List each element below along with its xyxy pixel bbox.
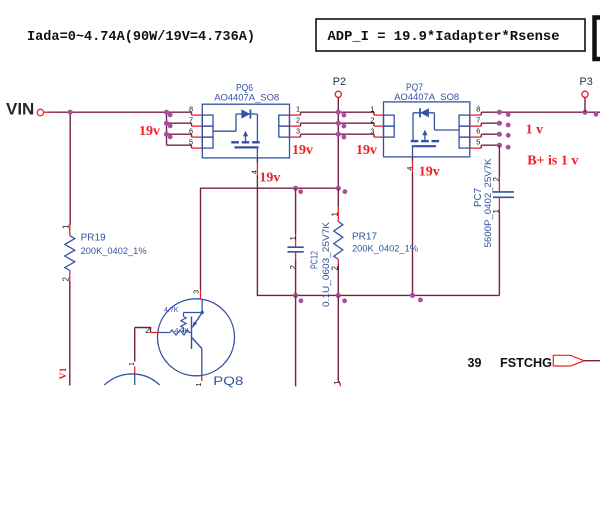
label 39 FSTCHG xyxy=(468,355,553,370)
svg-text:0.1U_0603_25V7K: 0.1U_0603_25V7K xyxy=(321,221,332,307)
svg-text:200K_0402_1%: 200K_0402_1% xyxy=(81,246,148,257)
svg-text:8: 8 xyxy=(476,104,480,113)
wires PQ7 pins 7 6 5 to vertical xyxy=(481,123,499,145)
svg-text:3: 3 xyxy=(296,127,300,136)
label net V1 xyxy=(59,367,69,379)
svg-text:19v: 19v xyxy=(292,143,313,158)
transistor PQ6 AO4407A_SO8 P-MOSFET xyxy=(202,104,289,158)
transistor PQ8 digital NPN xyxy=(151,299,235,387)
svg-text:PC12: PC12 xyxy=(310,251,321,269)
svg-text:1 v: 1 v xyxy=(526,123,544,138)
connector FSTCHG off-page pointer xyxy=(553,355,600,366)
label PQ7 refdes and value xyxy=(394,83,459,104)
wire 19v node horizontal xyxy=(200,187,338,189)
svg-text:2: 2 xyxy=(289,265,298,270)
svg-text:6: 6 xyxy=(189,126,193,135)
testpoint P2 with wire down xyxy=(333,76,346,188)
wire PQ8 collector from 19v node xyxy=(193,188,200,299)
label 19v PQ7 pin4 xyxy=(419,165,440,180)
node dots right vertical xyxy=(497,110,511,150)
label PC7 value rotated xyxy=(473,158,494,248)
svg-text:7: 7 xyxy=(476,115,480,124)
svg-text:5: 5 xyxy=(476,137,480,146)
capacitor PC12 0.1U xyxy=(288,188,304,295)
transistor PQ7 AO4407A_SO8 P-MOSFET mirrored xyxy=(384,102,470,157)
node dots bottom bus xyxy=(293,293,423,303)
svg-text:200K_0402_1%: 200K_0402_1% xyxy=(352,244,419,255)
svg-text:19v: 19v xyxy=(139,124,160,139)
capacitor PC7 5600P xyxy=(492,145,514,295)
annotation box ADP_I formula xyxy=(316,19,585,51)
node dots PQ6 left tap xyxy=(164,110,173,140)
svg-text:4.7K: 4.7K xyxy=(175,328,190,335)
resistor PR17 200K xyxy=(330,188,343,295)
label 19v PQ6 output xyxy=(292,143,313,158)
svg-text:19v: 19v xyxy=(356,143,377,158)
resistor PR19 200K xyxy=(62,224,75,282)
svg-text:3: 3 xyxy=(370,127,374,136)
wire stub below bus with pin1 marker xyxy=(333,295,342,386)
svg-text:1: 1 xyxy=(62,224,71,229)
wire PQ7 pin4 drain down to bottom bus xyxy=(407,157,414,296)
label 19v at PQ6 left xyxy=(139,124,160,139)
svg-text:AO4407A_SO8: AO4407A_SO8 xyxy=(214,93,279,104)
transistor partial circle bottom left xyxy=(104,374,159,385)
label B+ is 1v xyxy=(527,153,578,168)
svg-text:2: 2 xyxy=(296,116,300,125)
pins 8 7 6 5 of PQ6 with pin numbers xyxy=(189,104,202,148)
svg-text:P3: P3 xyxy=(580,76,593,88)
svg-text:ADP_I = 19.9*Iadapter*Rsense: ADP_I = 19.9*Iadapter*Rsense xyxy=(328,29,560,45)
svg-text:4.7K: 4.7K xyxy=(164,307,179,314)
label PR17 value xyxy=(352,232,419,255)
port VIN xyxy=(6,100,49,119)
svg-text:FSTCHG: FSTCHG xyxy=(500,355,552,370)
svg-text:2: 2 xyxy=(145,325,150,335)
label 1v xyxy=(526,123,544,138)
svg-text:39: 39 xyxy=(468,356,482,370)
node dots on 19v horizontal wire xyxy=(293,186,347,195)
svg-text:1: 1 xyxy=(370,105,374,114)
label PQ8 xyxy=(213,374,243,388)
svg-text:1: 1 xyxy=(296,105,300,114)
pins 8 7 6 5 of PQ7 right side xyxy=(470,104,482,148)
svg-text:PR17: PR17 xyxy=(352,232,377,243)
testpoint P3 with wire down xyxy=(580,76,593,112)
svg-text:8: 8 xyxy=(189,104,193,113)
label PQ6 refdes and value xyxy=(214,83,279,104)
svg-text:1: 1 xyxy=(289,236,298,241)
svg-text:1: 1 xyxy=(196,383,203,387)
wire 19V bus VIN to PQ6 pin8 xyxy=(49,111,192,113)
svg-text:3: 3 xyxy=(193,290,200,294)
label 19v PQ7 input xyxy=(356,143,377,158)
svg-text:19v: 19v xyxy=(419,165,440,180)
label PR19 value xyxy=(81,233,148,257)
svg-text:B+ is 1 v: B+ is 1 v xyxy=(527,153,578,168)
svg-text:PR19: PR19 xyxy=(81,233,106,244)
svg-text:VIN: VIN xyxy=(6,100,34,119)
label 19v PQ6 pin4 xyxy=(259,171,280,186)
svg-text:6: 6 xyxy=(476,126,480,135)
wire stubs to PQ6 pins 7 6 5 xyxy=(167,123,192,145)
svg-text:AO4407A_SO8: AO4407A_SO8 xyxy=(394,92,459,103)
wire PR19 down to V1 xyxy=(69,281,71,386)
svg-text:2: 2 xyxy=(62,277,71,282)
svg-text:1: 1 xyxy=(330,212,339,217)
svg-text:P2: P2 xyxy=(333,76,346,88)
partial thick box at right edge xyxy=(595,18,600,60)
note: Iada current formula xyxy=(27,30,255,45)
node dots P3 junction xyxy=(582,110,598,117)
svg-text:5: 5 xyxy=(189,137,193,146)
node dots P2 vertical crossings xyxy=(336,110,347,140)
wire PQ6 pin4 drain down and bottom bus xyxy=(252,158,500,295)
pins 1 2 3 of PQ7 left side xyxy=(370,105,383,137)
wire PQ8 base pin2 elbow xyxy=(135,325,151,335)
svg-text:5600P_0402_25V7K: 5600P_0402_25V7K xyxy=(483,158,494,248)
svg-text:1: 1 xyxy=(129,362,136,366)
wire VIN branch down to PR19 xyxy=(69,112,71,225)
svg-text:V1: V1 xyxy=(59,367,69,379)
pins 1 2 3 of PQ6 right side xyxy=(290,105,301,137)
svg-text:19v: 19v xyxy=(259,171,280,186)
svg-text:4: 4 xyxy=(252,170,259,174)
svg-text:2: 2 xyxy=(370,116,374,125)
svg-text:Iada=0~4.74A(90W/19V=4.736A): Iada=0~4.74A(90W/19V=4.736A) xyxy=(27,30,255,45)
wires PQ6 to PQ7 rows 1 2 3 xyxy=(301,112,375,134)
labels 4.7K internal resistors xyxy=(164,307,189,335)
node junction VIN branch xyxy=(68,110,73,115)
label PC12 value rotated xyxy=(310,221,332,307)
wire stub below bus at PC12 xyxy=(295,295,297,386)
svg-text:7: 7 xyxy=(189,115,193,124)
wire bus PQ7 to right edge xyxy=(481,111,600,113)
wire down to lower transistor pin1 xyxy=(129,328,136,375)
svg-text:4: 4 xyxy=(407,167,414,171)
wire PQ6 left pin tap vertical xyxy=(166,112,168,145)
svg-text:PQ8: PQ8 xyxy=(213,374,243,388)
